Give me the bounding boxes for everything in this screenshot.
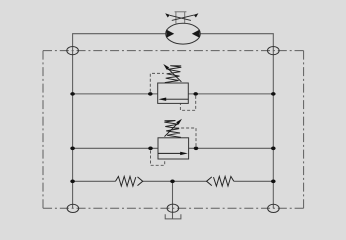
port P4 bottom-center [167, 204, 179, 212]
junction dot B2 [148, 147, 153, 151]
junction dot B3 [194, 147, 199, 151]
wire valve V1 line right [188, 93, 273, 95]
junction dot A4 [271, 92, 276, 96]
valve V1 spring adjust arrow [163, 64, 181, 82]
wire bottom rail left [73, 180, 116, 182]
port P5 bottom-right [268, 204, 280, 212]
motor M1 right triangle [192, 30, 200, 38]
valve V1 pilot line lower [180, 96, 195, 110]
wire tank drop [172, 181, 174, 218]
check valve CV1 spring [116, 176, 136, 186]
enclosure boundary bottom (dash-dot) [43, 207, 304, 209]
junction dot C3 [271, 180, 276, 184]
wire bottom rail center [143, 180, 207, 182]
junction dot B1 [70, 147, 75, 151]
tank T1 [165, 214, 181, 219]
junction dot C1 [70, 180, 75, 184]
valve V1 spring [165, 66, 182, 83]
check valve CV1 poppet [138, 177, 143, 186]
wire right riser [272, 94, 274, 208]
port P3 bottom-left [67, 204, 79, 212]
valve V1 internal arrow [158, 98, 188, 101]
wire valve V2 line right [189, 147, 274, 149]
motor M1 rotation arrow right [172, 13, 199, 20]
port P1 top-left [67, 47, 79, 55]
motor M1 shaft [175, 12, 187, 24]
motor M1 left triangle [166, 30, 174, 38]
valve V2 spring [164, 121, 181, 138]
wire bottom rail right [234, 180, 273, 182]
junction dot B4 [271, 147, 276, 151]
enclosure boundary top (dash-dot) [43, 50, 304, 52]
wire top rail left segment [73, 34, 166, 94]
motor M1 rotation arrow left [165, 13, 191, 20]
valve V2 internal arrow [158, 152, 188, 155]
junction dot A2 [148, 92, 153, 96]
valve V1 pilot line upper [150, 73, 164, 91]
valve V2 pilot line lower [151, 151, 165, 166]
valve V1 body [158, 83, 189, 103]
wire left riser [72, 94, 74, 208]
port P2 top-right [268, 47, 280, 55]
enclosure boundary left (dash-dot) [42, 51, 44, 209]
motor M1 body [166, 23, 201, 44]
check valve CV2 poppet [207, 177, 212, 186]
valve V2 spring adjust arrow [165, 119, 183, 137]
wire valve V1 line left [73, 93, 158, 95]
junction dot A1 [70, 92, 75, 96]
valve V2 body [158, 138, 189, 159]
enclosure boundary right (dash-dot) [303, 51, 305, 209]
junction dot C2 [170, 180, 175, 184]
check valve CV2 spring [214, 176, 234, 186]
valve V2 pilot line upper [175, 128, 197, 146]
junction dot A3 [193, 92, 198, 96]
wire valve V2 line left [73, 147, 158, 149]
wire top rail right segment [200, 34, 273, 94]
